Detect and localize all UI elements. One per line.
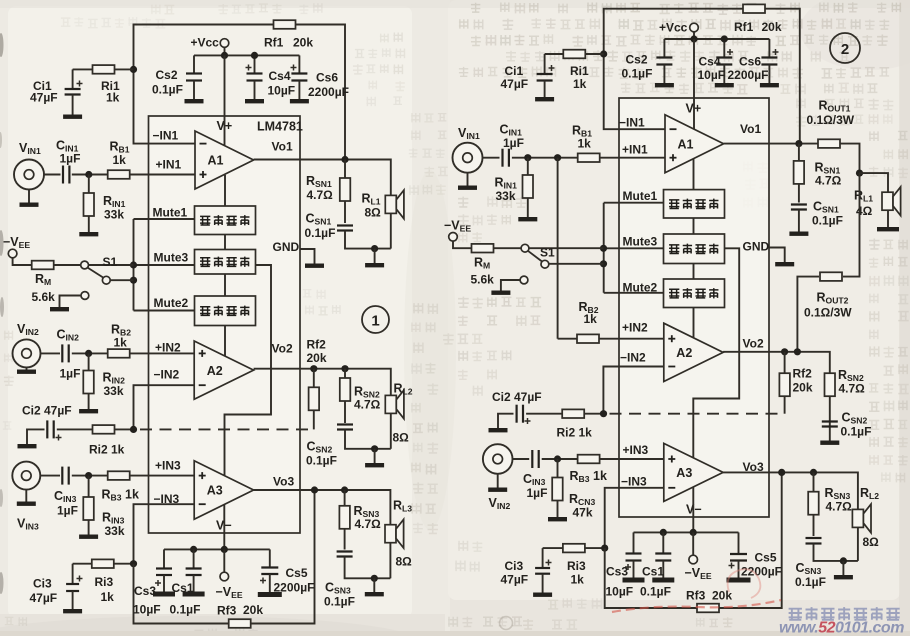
wire mute3 to A3 [225, 265, 272, 476]
svg-text:20k: 20k [762, 20, 782, 34]
svg-text:0.1µF: 0.1µF [152, 83, 183, 97]
resistor Ri3 right [563, 544, 585, 553]
-VEE terminal bottom right [692, 532, 694, 555]
wire -IN3 [134, 504, 195, 564]
ground RL1r [877, 227, 899, 231]
svg-text:Cs4: Cs4 [699, 55, 721, 69]
svg-text:Ci2 47µF: Ci2 47µF [22, 404, 72, 418]
node in1r-b [554, 154, 561, 161]
node Vcc2 [251, 52, 258, 59]
node vo2a [310, 365, 317, 372]
svg-text:Mute1: Mute1 [623, 189, 658, 203]
resistor RSN2 [344, 369, 346, 423]
svg-text:0.1µF: 0.1µF [306, 454, 337, 468]
svg-text:4Ω: 4Ω [856, 204, 873, 218]
node vo2ra [781, 348, 788, 355]
svg-text:Cs2: Cs2 [156, 68, 178, 82]
svg-text:−IN3: −IN3 [621, 475, 647, 489]
resistor RM 5.6k [32, 261, 54, 270]
node vo2rb [794, 348, 801, 355]
svg-text:+IN1: +IN1 [156, 158, 182, 172]
wire V+ pin right [693, 39, 695, 130]
capacitor Cs2r [663, 39, 665, 58]
svg-text:Mute2: Mute2 [623, 281, 658, 295]
wire +IN1-to-+IN2 [557, 158, 559, 339]
svg-text:Vo3: Vo3 [273, 475, 294, 489]
Vcc rail right [664, 38, 769, 40]
svg-text:−IN2: −IN2 [154, 368, 180, 382]
capacitor Cs1 right [662, 532, 664, 553]
svg-text:Rf3: Rf3 [686, 589, 706, 603]
svg-text:Ci3: Ci3 [33, 577, 52, 591]
ground Cs4r [715, 83, 734, 87]
capacitor Ci2 right [498, 414, 514, 428]
resistor Ri1 [73, 68, 134, 70]
control circuit box 2r [664, 234, 725, 264]
svg-text:+IN3: +IN3 [155, 459, 181, 473]
svg-text:Ri2 1k: Ri2 1k [89, 443, 125, 457]
svg-text:+IN1: +IN1 [622, 143, 648, 157]
ground RIN1r [518, 217, 537, 221]
wire Vo3 output [254, 490, 391, 525]
svg-text:+IN3: +IN3 [623, 443, 649, 457]
control circuit box 1r [664, 190, 725, 218]
resistor ROUT1 [818, 139, 840, 148]
svg-text:Rf2: Rf2 [793, 367, 813, 381]
+Vcc terminal [220, 39, 229, 48]
op-amp A3 right [664, 443, 723, 501]
svg-text:LM4781: LM4781 [257, 120, 303, 134]
svg-text:1µF: 1µF [57, 504, 78, 518]
svg-text:10µF: 10µF [698, 68, 726, 82]
ground RIN2 [79, 409, 98, 413]
resistor Rf1 (right) [743, 4, 765, 13]
V- rail right [634, 531, 739, 533]
wire +IN3 [40, 475, 60, 477]
node ret1 [371, 245, 378, 252]
svg-text:Ri1: Ri1 [570, 64, 589, 78]
svg-text:GND: GND [273, 240, 300, 254]
svg-text:0.1Ω/3W: 0.1Ω/3W [807, 113, 855, 127]
speaker RL2 right [852, 509, 863, 527]
wire Vo1 output right [724, 143, 818, 145]
node vo3b [341, 486, 348, 493]
capacitor CSN3 [337, 550, 353, 552]
paper texture blobs [8, 6, 412, 618]
svg-text:1k: 1k [114, 336, 128, 350]
ground VIN1 [20, 203, 39, 207]
capacitor CSN2 [337, 423, 353, 425]
svg-text:S1: S1 [103, 255, 118, 269]
-VEE terminal bottom [223, 549, 225, 572]
speaker RL2 [385, 395, 396, 413]
svg-text:+Vcc: +Vcc [191, 36, 220, 50]
node fb3 [130, 560, 137, 567]
capacitor CIN1r [501, 149, 503, 167]
resistor RM right [472, 244, 494, 253]
capacitor Cs3 [163, 549, 165, 568]
resistor RB3 [108, 471, 130, 480]
ground GNDr [775, 262, 794, 266]
svg-text:Vo1: Vo1 [272, 140, 293, 154]
node vo1r [795, 140, 802, 147]
wire Vo2 output [254, 369, 391, 396]
switch S1 right [521, 244, 529, 252]
ground CSN1r [789, 232, 808, 236]
svg-text:Cs3: Cs3 [134, 584, 156, 598]
svg-text:2200µF: 2200µF [741, 565, 782, 579]
svg-text:Cs6: Cs6 [316, 71, 338, 85]
svg-text:Ri3: Ri3 [567, 559, 586, 573]
control circuit box 3 [195, 296, 256, 326]
svg-text:47µF: 47µF [30, 91, 58, 105]
ground Cs6r [760, 83, 779, 87]
svg-text:0.1µF: 0.1µF [795, 575, 826, 589]
switch S1 [81, 261, 89, 269]
resistor RCN3 [557, 459, 559, 517]
svg-text:Vo1: Vo1 [740, 122, 761, 136]
svg-text:0.1µF: 0.1µF [170, 603, 201, 617]
ground Ci1r [535, 97, 554, 101]
svg-text:33k: 33k [104, 384, 124, 398]
node in1 [85, 171, 92, 178]
svg-text:4.7Ω: 4.7Ω [354, 398, 381, 412]
node fb3r [601, 545, 608, 552]
svg-text:A3: A3 [676, 466, 692, 480]
resistor Rf2 [313, 369, 315, 430]
op-amp A1 [195, 131, 254, 189]
node muter-b [600, 260, 607, 267]
node vee1 [190, 546, 197, 553]
wire +IN2 right [558, 338, 664, 340]
wire V- pin right [692, 487, 694, 532]
wire -IN1 [134, 69, 196, 143]
capacitor Cs6 [298, 55, 300, 73]
svg-text:1k: 1k [578, 137, 592, 151]
wire Rf3 path right [605, 548, 698, 608]
node fb2r [600, 410, 607, 417]
node fb2 [130, 426, 137, 433]
svg-text:Cs1: Cs1 [642, 565, 664, 579]
wire mute3 to A3 right [693, 248, 739, 458]
ground Cs5 [258, 592, 282, 597]
svg-text:1: 1 [371, 313, 379, 330]
capacitor Cs1 [193, 549, 195, 568]
svg-text:1k: 1k [571, 573, 585, 587]
V- rail [164, 548, 270, 550]
svg-text:4.7Ω: 4.7Ω [307, 188, 334, 202]
ground Cs1r [652, 578, 674, 583]
svg-text:1µF: 1µF [60, 367, 81, 381]
svg-text:−IN2: −IN2 [620, 351, 646, 365]
svg-text:+IN2: +IN2 [155, 341, 181, 355]
resistor Rf2 right [784, 352, 786, 414]
svg-text:Ri2 1k: Ri2 1k [557, 426, 593, 440]
ground RIN3 [79, 535, 98, 539]
svg-text:Mute1: Mute1 [153, 206, 188, 220]
+Vcc terminal (right) [690, 23, 699, 32]
node vee2 [221, 546, 228, 553]
svg-text:1k: 1k [113, 153, 127, 167]
svg-text:−IN1: −IN1 [153, 129, 179, 143]
resistor RIN1r [527, 158, 529, 217]
node muter-a [600, 245, 607, 252]
svg-text:Cs3: Cs3 [606, 565, 628, 579]
circled 1 [362, 306, 389, 333]
capacitor Cs6r [768, 39, 770, 58]
svg-text:0.1µF: 0.1µF [622, 67, 653, 81]
resistor RB1 [108, 170, 130, 179]
ground VIN2r [488, 488, 507, 492]
Vcc rail [194, 54, 299, 56]
svg-text:Rf2: Rf2 [307, 338, 327, 352]
svg-text:20k: 20k [293, 36, 313, 50]
node out12 [856, 170, 863, 177]
ground Ci1 [63, 115, 82, 119]
svg-text:Cs4: Cs4 [269, 69, 291, 83]
watermark text [789, 607, 900, 620]
svg-text:0.1µF: 0.1µF [305, 226, 336, 240]
node in3 [85, 472, 92, 479]
wire feedback ch1 top [134, 25, 346, 160]
resistor RB1r [578, 153, 600, 162]
ground VIN2 [17, 370, 36, 374]
svg-text:5.6k: 5.6k [32, 290, 56, 304]
capacitor Ci1 [72, 69, 74, 89]
node mute-a [130, 261, 137, 268]
wire Mute3 [134, 264, 195, 266]
wire Mute2 right [604, 292, 664, 294]
wire Vo3 output right [723, 472, 858, 509]
capacitor CSN3 right [806, 537, 822, 539]
ground Ci3 [63, 609, 82, 613]
input VIN2 BNC (right) [483, 444, 513, 474]
capacitor CSN1 [337, 224, 353, 226]
mute bus [133, 219, 135, 311]
speaker RL1 right [882, 192, 893, 210]
svg-text:0.1µF: 0.1µF [812, 214, 843, 228]
svg-text:10µF: 10µF [268, 84, 296, 98]
ground CSN2r [820, 441, 839, 445]
resistor RB3r [578, 455, 600, 464]
resistor RSN1 right [798, 144, 800, 203]
svg-text:Mute3: Mute3 [623, 235, 658, 249]
wire -IN1 (right) [604, 54, 665, 129]
svg-text:47µF: 47µF [501, 573, 529, 587]
resistor Ri2 [93, 425, 115, 434]
capacitor CSN1 right [791, 203, 807, 205]
wire A1-box links [224, 175, 226, 206]
svg-text:8Ω: 8Ω [365, 206, 382, 220]
svg-text:33k: 33k [496, 189, 516, 203]
svg-text:Cs1: Cs1 [172, 581, 194, 595]
ground Cs3r [623, 578, 645, 583]
capacitor CIN3r [531, 450, 533, 468]
op-amp A2 right [664, 323, 723, 381]
svg-text:S1: S1 [540, 246, 555, 260]
resistor Ri2 right [562, 409, 584, 418]
mute bus right [603, 203, 605, 293]
svg-text:GND: GND [743, 240, 770, 254]
capacitor Cs5 right [738, 532, 740, 554]
svg-text:Ri3: Ri3 [95, 575, 114, 589]
svg-text:+Vcc: +Vcc [659, 21, 688, 35]
svg-text:Vo2: Vo2 [272, 342, 293, 356]
svg-text:47k: 47k [573, 506, 593, 520]
resistor RSN2 right [825, 373, 836, 396]
resistor RB2r [577, 334, 599, 343]
ground ch2 [365, 463, 384, 467]
node vo2b [341, 365, 348, 372]
resistor RSN3 [344, 490, 346, 550]
svg-text:20k: 20k [307, 351, 327, 365]
svg-text:−IN1: −IN1 [619, 116, 645, 130]
wire A1-box links right [693, 159, 695, 190]
ground RIN1 [79, 232, 98, 236]
scan edge marks [0, 33, 4, 57]
svg-text:2200µF: 2200µF [308, 85, 349, 99]
capacitor Cs2 [193, 55, 195, 73]
resistor RSN3 right [813, 472, 815, 536]
capacitor Ci3 [73, 563, 92, 565]
svg-text:1k: 1k [101, 590, 115, 604]
wire -IN2 [134, 385, 195, 429]
node feedback1 [130, 66, 137, 73]
wire Mute2 [134, 310, 195, 312]
svg-text:8Ω: 8Ω [863, 535, 880, 549]
wire V- pin [223, 505, 225, 550]
capacitor CIN3 [61, 467, 63, 485]
capacitor Cs4 [254, 55, 256, 73]
ground ch3 [365, 592, 384, 596]
resistor Rf3 right [697, 604, 719, 613]
ground Ci2 [18, 444, 37, 448]
svg-text:+IN2: +IN2 [622, 321, 648, 335]
wire Vo2 output right [723, 352, 830, 374]
svg-text:A2: A2 [676, 346, 692, 360]
svg-text:Vo3: Vo3 [743, 460, 764, 474]
ground Ci3r [533, 593, 552, 597]
IC U1 LM4781 box [149, 116, 301, 533]
node Vcc1 [221, 52, 228, 59]
svg-text:20k: 20k [243, 603, 263, 617]
svg-text:33k: 33k [104, 208, 124, 222]
wire Vo1 output [254, 160, 391, 196]
wire Mute1 right [604, 202, 664, 204]
ground GND [305, 264, 324, 268]
node vccr2 [721, 35, 728, 42]
ground Cs3 [153, 592, 175, 597]
svg-text:Mute2: Mute2 [154, 296, 189, 310]
svg-text:Ci2 47µF: Ci2 47µF [492, 390, 542, 404]
wire +IN1 [44, 174, 61, 176]
svg-text:Rf3: Rf3 [217, 604, 237, 618]
wire -IN3 right [605, 488, 664, 548]
svg-text:1k: 1k [573, 77, 587, 91]
svg-text:0.1µF: 0.1µF [324, 595, 355, 609]
wire +IN1 right [483, 157, 500, 159]
svg-text:8Ω: 8Ω [396, 555, 413, 569]
op-amp A1 right [665, 115, 724, 173]
capacitor Ci3 right [543, 547, 563, 549]
speaker RL1 [385, 195, 396, 213]
node feedback1r [600, 50, 607, 57]
svg-text:1µF: 1µF [527, 486, 548, 500]
svg-text:2: 2 [841, 41, 849, 58]
node vo3rb [810, 469, 817, 476]
svg-text:5.6k: 5.6k [471, 273, 495, 287]
capacitor Cs5 [269, 549, 271, 567]
ground Cs4 [245, 99, 264, 103]
resistor RIN2 [88, 353, 90, 409]
svg-text:Vo2: Vo2 [743, 337, 764, 351]
input VIN1 BNC (right) [453, 143, 483, 173]
ground Cs2 [185, 99, 204, 103]
ground ch1 [365, 263, 384, 267]
red pen scrawl [612, 600, 781, 612]
resistor Rf1 [274, 20, 296, 29]
node ret3 [371, 575, 378, 582]
svg-text:47µF: 47µF [501, 77, 529, 91]
svg-text:Ci3: Ci3 [505, 559, 524, 573]
ground Cs5r [727, 578, 751, 583]
svg-text:2200µF: 2200µF [728, 68, 769, 82]
control circuit box 3r [664, 279, 725, 308]
ground Cs6 [290, 99, 309, 103]
svg-text:A1: A1 [678, 137, 694, 151]
ground S1r [491, 291, 510, 295]
svg-text:Cs6: Cs6 [739, 55, 761, 69]
stamp mark [500, 617, 513, 630]
resistor RIN3 [88, 476, 90, 535]
capacitor Cs4r [723, 39, 725, 58]
circled 2 [830, 33, 860, 63]
wire Mute1 [134, 218, 195, 220]
control circuit box 1 [195, 206, 256, 235]
svg-text:Rf1: Rf1 [734, 20, 754, 34]
op-amp A2 [194, 341, 253, 399]
svg-text:0.1µF: 0.1µF [640, 585, 671, 599]
capacitor Ci1 (right) [544, 54, 546, 74]
ground VIN3 [17, 502, 36, 506]
resistor ROUT2 [843, 173, 860, 277]
svg-text:A3: A3 [207, 484, 223, 498]
node veer2 [690, 529, 697, 536]
svg-text:1µF: 1µF [503, 136, 524, 150]
node in1r-a [524, 154, 531, 161]
wire +IN3 right [513, 458, 530, 460]
wire feedback ch1 top (right) [604, 9, 800, 144]
ground RCN3 [548, 517, 567, 521]
speaker RL3 [385, 525, 396, 543]
svg-text:4.7Ω: 4.7Ω [826, 500, 853, 514]
node ret3r [840, 557, 847, 564]
svg-text:1µF: 1µF [60, 152, 81, 166]
node veer1 [660, 529, 667, 536]
svg-text:0.1Ω/3W: 0.1Ω/3W [804, 306, 852, 320]
input VIN3 BNC [12, 462, 40, 490]
resistor RSN1 [344, 160, 346, 224]
IC U2 box [619, 98, 769, 517]
svg-text:Cs5: Cs5 [755, 551, 777, 565]
node in2 [85, 350, 92, 357]
input VIN1 BNC [14, 160, 44, 190]
capacitor CIN1 [62, 166, 64, 184]
capacitor CSN2 right [829, 396, 831, 440]
svg-text:10µF: 10µF [133, 603, 161, 617]
svg-text:Cs5: Cs5 [286, 566, 308, 580]
capacitor Ci2 [27, 429, 45, 444]
